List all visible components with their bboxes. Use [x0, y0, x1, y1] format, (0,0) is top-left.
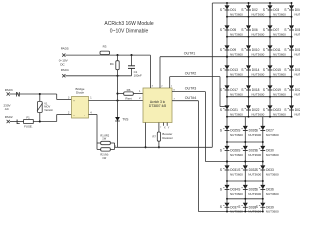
svg-text:NUT3600: NUT3600 [273, 92, 286, 96]
svg-text:Rset: Rset [125, 97, 131, 101]
bus wire bridge+ to LED top rail [118, 146, 213, 148]
svg-text:NUT3600: NUT3600 [248, 153, 261, 157]
wire bridge pin4 down [89, 114, 98, 116]
LED top rail [212, 2, 291, 4]
wire N bend down to bridge pin 3 [56, 94, 58, 100]
svg-text:NUT3600: NUT3600 [230, 32, 243, 36]
svg-text:NUT3600: NUT3600 [266, 133, 279, 137]
svg-text:PAD5: PAD5 [61, 47, 69, 51]
svg-text:PAD3: PAD3 [5, 88, 13, 92]
svg-text:NUT3600: NUT3600 [248, 172, 261, 176]
IC U1 Acrich3 DT3807 [143, 88, 172, 123]
svg-text:NUT3600: NUT3600 [252, 12, 265, 16]
grid rails upper block [227, 16, 292, 18]
tvs diode D-TVS [115, 117, 120, 121]
grid column wires lower block [226, 117, 228, 212]
svg-text:NUT3600: NUT3600 [295, 92, 301, 96]
svg-text:R4: R4 [110, 62, 114, 66]
svg-text:F1: F1 [26, 115, 30, 119]
svg-text:NUT3600: NUT3600 [266, 192, 279, 196]
grid column wires upper block [226, 3, 228, 117]
svg-text:NUT3600: NUT3600 [248, 192, 261, 196]
svg-text:L: L [16, 120, 20, 126]
svg-text:FUSE.: FUSE. [24, 125, 33, 129]
svg-text:-: - [84, 114, 85, 117]
svg-text:NUT3600: NUT3600 [295, 12, 301, 16]
grid rails lower block [227, 141, 263, 143]
svg-text:PAD2: PAD2 [5, 115, 13, 119]
svg-text:N: N [16, 92, 20, 98]
svg-text:NUT3600: NUT3600 [295, 72, 301, 76]
svg-text:1W: 1W [102, 137, 106, 141]
svg-text:OUT#4: OUT#4 [185, 96, 197, 100]
IC nc pins [163, 123, 165, 126]
svg-text:OUT#3: OUT#3 [185, 87, 197, 91]
svg-text:ACRich3 16W Module: ACRich3 16W Module [104, 21, 153, 27]
svg-text:NUT3600: NUT3600 [252, 92, 265, 96]
svg-text:NUT3600: NUT3600 [266, 172, 279, 176]
svg-text:NUT3600: NUT3600 [295, 32, 301, 36]
svg-text:NUT3600: NUT3600 [230, 133, 243, 137]
svg-text:NUT3600: NUT3600 [252, 32, 265, 36]
svg-text:NUT3600: NUT3600 [230, 192, 243, 196]
svg-text:NUT3600: NUT3600 [230, 72, 243, 76]
wire bridge pin1 to node A / IC pin2 [89, 100, 118, 102]
svg-text:NUT3600: NUT3600 [273, 72, 286, 76]
svg-text:NUT3600: NUT3600 [273, 52, 286, 56]
svg-text:NUT3600: NUT3600 [230, 12, 243, 16]
svg-text:DC: DC [60, 62, 65, 66]
svg-text:NUT3600: NUT3600 [266, 153, 279, 157]
svg-text:DT3807 4/8: DT3807 4/8 [149, 104, 166, 108]
svg-text:*: * [160, 127, 161, 130]
IC top pin wires [149, 55, 151, 88]
svg-text:NUT3600: NUT3600 [266, 210, 279, 214]
svg-text:0~10V Dimmable: 0~10V Dimmable [110, 29, 149, 35]
wire node A down [117, 76, 119, 148]
svg-text:Varistor: Varistor [44, 108, 53, 112]
svg-text:NUT3600: NUT3600 [273, 12, 286, 16]
svg-text:NUT3600: NUT3600 [248, 133, 261, 137]
IC bottom pins [145, 123, 147, 148]
wire L fuse to bend [33, 121, 56, 123]
resistor R2 [96, 143, 98, 149]
svg-text:NUT3600: NUT3600 [230, 52, 243, 56]
svg-text:NUT3600: NUT3600 [252, 112, 265, 116]
svg-text:OUT#1: OUT#1 [184, 51, 196, 55]
wire dim- PAD4 [65, 75, 131, 77]
svg-text:Diode: Diode [76, 91, 84, 95]
wire R3 to IC pin in [110, 54, 151, 56]
svg-text:NUT3600: NUT3600 [252, 52, 265, 56]
wire N pad to bend [10, 93, 57, 95]
varistor V1 [37, 102, 42, 113]
grid top rail column dots [226, 2, 228, 4]
svg-text:R7: R7 [152, 134, 156, 138]
svg-text:NUT3600: NUT3600 [295, 112, 301, 116]
grid bottom rail [198, 211, 262, 213]
wire R1R2 to bus node [115, 145, 116, 147]
wire L bend up to bridge pin 2 [56, 115, 58, 122]
svg-text:TVS: TVS [122, 117, 128, 121]
svg-text:100nF: 100nF [134, 73, 142, 77]
wire dim+ to R3 [65, 54, 100, 56]
svg-text:OUT#2: OUT#2 [185, 72, 197, 76]
svg-text:R3: R3 [103, 44, 107, 48]
booster resistor R7 [158, 123, 160, 133]
svg-text:NUT3600: NUT3600 [273, 32, 286, 36]
svg-text:Resistor: Resistor [162, 136, 173, 140]
svg-text:1W: 1W [102, 156, 106, 160]
svg-text:NUT3600: NUT3600 [273, 112, 286, 116]
svg-text:NUT3600: NUT3600 [230, 172, 243, 176]
svg-text:NUT3600: NUT3600 [252, 72, 265, 76]
svg-text:PAD4: PAD4 [61, 68, 69, 72]
svg-text:NUT3600: NUT3600 [230, 92, 243, 96]
svg-text:NUT3600: NUT3600 [230, 112, 243, 116]
resistor R1 [97, 142, 101, 144]
OUT#1 junction dot [226, 56, 228, 58]
varistor V1 branch wire [39, 94, 41, 101]
capacitor C1 [131, 55, 133, 66]
svg-text:NUT3600: NUT3600 [230, 153, 243, 157]
svg-text:NUT3600: NUT3600 [295, 52, 301, 56]
